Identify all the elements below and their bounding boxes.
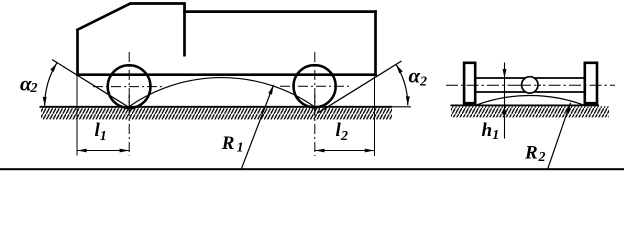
ground (left, hatched road surface) [40,107,412,120]
truck body outline [76,4,377,77]
axle beam top [477,77,584,79]
svg-text:R: R [524,142,538,163]
svg-text:2: 2 [538,150,546,165]
rear wheel contact centre segment [314,95,316,111]
arc arrow top right [396,64,403,73]
l1 extension (front bumper line) [76,76,78,156]
hood/windshield slope [76,4,130,31]
arc arrow bottom right [406,96,410,105]
l1 arrow left [77,149,87,153]
approach angle tangent line (front) [52,60,133,110]
rear wheel [294,65,336,107]
cargo box top [183,10,377,13]
l2 extension (truck rear line) [374,76,376,156]
h1 arrow down (to beam top) [503,69,507,78]
transverse clearance arc R2 [477,95,584,105]
longitudinal clearance arc R1 [129,78,315,107]
svg-text:2: 2 [340,129,348,144]
ground (right axle view) [451,105,610,117]
chassis frame bottom [76,73,377,76]
R1 leader arrow [268,85,273,95]
svg-text:1: 1 [237,141,244,156]
front wheel [108,65,151,108]
R1 leader line [242,85,274,169]
cab front [76,30,79,77]
svg-text:h: h [482,120,493,141]
svg-text:R: R [221,133,235,154]
R2 leader line [548,103,571,170]
truck rear [374,10,377,76]
front wheel contact centre segment [128,95,130,111]
dimension l1 line [77,150,129,152]
svg-text:2: 2 [419,75,427,90]
l2 arrow left [315,149,325,153]
cab back [183,4,186,57]
dimension h1 vertical line [504,63,506,139]
svg-text:2: 2 [30,81,38,96]
departure angle arc (right) [396,64,408,105]
h1 arrow up (to ground) [503,106,507,115]
l2 arrow right [365,149,375,153]
rear wheel center lines [280,52,349,156]
R2 leader arrow [566,103,571,113]
axle beam bottom [477,91,584,93]
arc arrow top left [50,63,57,72]
axle center line [446,84,615,86]
arc arrow bottom left [43,97,47,106]
bottom border rule [0,168,624,170]
svg-text:1: 1 [100,129,107,144]
l1 arrow right [120,149,130,153]
departure angle tangent line (rear) [318,61,402,113]
left tyre (rear view) [464,63,475,103]
cab roof [129,2,186,5]
right tyre (rear view) [585,63,597,103]
front wheel center lines [93,52,162,156]
approach angle arc (left) [45,63,57,106]
differential housing [522,77,538,93]
dimension l2 line [315,150,375,152]
svg-text:α: α [409,64,421,88]
svg-text:1: 1 [492,128,499,143]
